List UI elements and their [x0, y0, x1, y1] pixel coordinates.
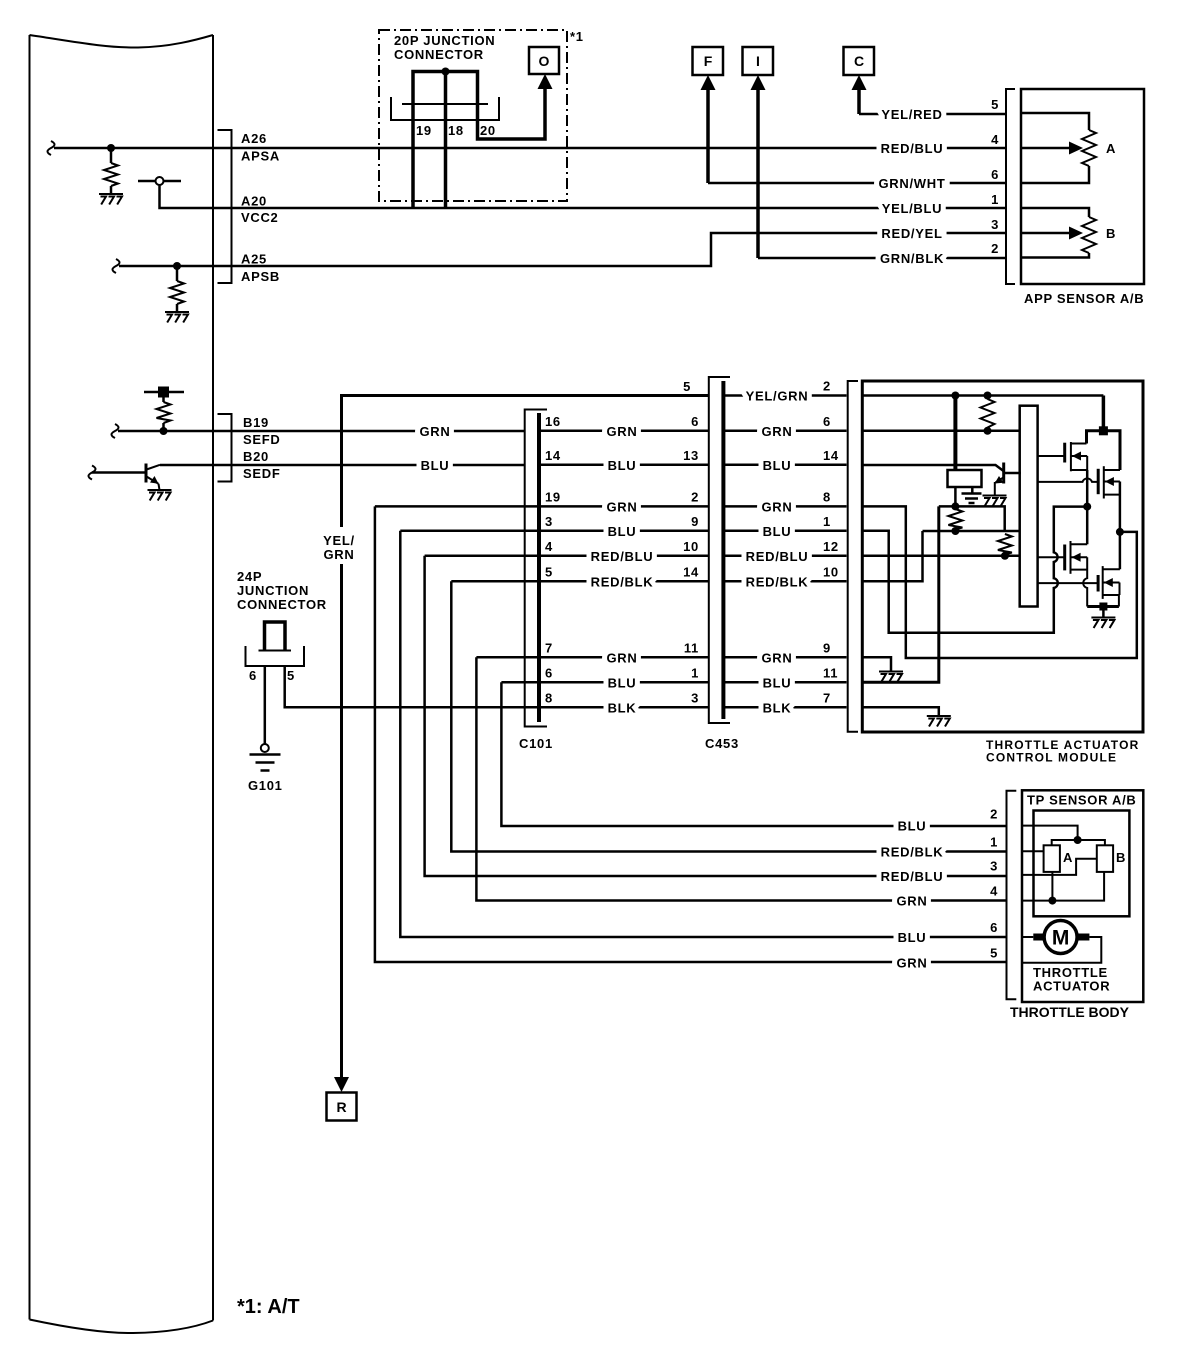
- internal node with circle (VCC2): [138, 180, 181, 183]
- svg-text:YEL/RED: YEL/RED: [881, 107, 942, 122]
- svg-text:5: 5: [991, 97, 999, 112]
- svg-text:C453: C453: [705, 736, 739, 751]
- svg-text:GRN: GRN: [897, 956, 928, 971]
- row BLU pin11: [723, 681, 846, 684]
- resistor p2-p6: [981, 399, 995, 428]
- svg-text:8: 8: [823, 490, 831, 505]
- junction dot pin2/coil: [951, 392, 959, 400]
- svg-text:7: 7: [823, 691, 831, 706]
- APP sensor connector bracket: [1006, 89, 1015, 284]
- H-bridge top rail: [1087, 431, 1121, 470]
- svg-text:GRN: GRN: [897, 894, 928, 909]
- svg-text:RED/BLK: RED/BLK: [746, 574, 809, 589]
- svg-text:G101: G101: [248, 778, 283, 793]
- node junction on APSA: [107, 144, 115, 152]
- svg-text:BLU: BLU: [608, 524, 637, 539]
- connector box F: [693, 47, 724, 75]
- cascade wire GRN to pin7: [476, 657, 1006, 900]
- svg-text:19: 19: [545, 490, 561, 505]
- svg-text:12: 12: [823, 539, 839, 554]
- junction dot R1/link row: [951, 527, 959, 535]
- svg-text:6: 6: [991, 167, 999, 182]
- TP pot A body: [1044, 845, 1060, 872]
- ground (APSB resistor): [165, 312, 189, 323]
- wire YEL/RED: [859, 113, 1006, 116]
- svg-text:GRN/WHT: GRN/WHT: [879, 176, 946, 191]
- svg-text:3: 3: [991, 217, 999, 232]
- svg-text:RED/BLU: RED/BLU: [881, 141, 944, 156]
- svg-text:4: 4: [991, 132, 999, 147]
- throttle body box: [1022, 790, 1143, 1002]
- arrow to O: [538, 74, 553, 89]
- svg-text:YEL/BLU: YEL/BLU: [882, 201, 943, 216]
- row RED/BLU pin12: [723, 555, 846, 558]
- break squiggle on B19: [112, 424, 119, 438]
- svg-text:14: 14: [683, 565, 699, 580]
- svg-text:1: 1: [823, 514, 831, 529]
- 24P connector bus bar: [265, 622, 286, 650]
- junction dot resistor/pin6 wire: [984, 427, 992, 435]
- wire APSA (A26): [54, 147, 1006, 150]
- svg-text:GRN: GRN: [607, 424, 638, 439]
- row BLU C101 6 / C453 1: [501, 681, 708, 684]
- p14 wire inside: [862, 465, 1003, 471]
- row GRN pin6: [723, 430, 846, 433]
- svg-text:SEFD: SEFD: [243, 432, 280, 447]
- svg-text:BLU: BLU: [608, 675, 637, 690]
- mosfet Q4 gate wire: [1038, 582, 1099, 584]
- svg-text:GRN: GRN: [607, 499, 638, 514]
- svg-text:APP SENSOR A/B: APP SENSOR A/B: [1024, 291, 1144, 306]
- APP sensor box: [1021, 89, 1144, 284]
- wire APSB (A25): [119, 233, 1006, 266]
- SECTION: left ECM box: [30, 35, 1007, 1333]
- svg-text:CONTROL MODULE: CONTROL MODULE: [986, 751, 1117, 765]
- SECTION: middle area: [237, 377, 1007, 1121]
- row BLU pin1: [723, 530, 846, 533]
- potentiometer A bottom lead: [1021, 166, 1089, 183]
- wire to I (GRN/BLK riser): [756, 87, 760, 258]
- svg-text:RED/BLK: RED/BLK: [881, 844, 944, 859]
- svg-text:6: 6: [823, 414, 831, 429]
- svg-text:APSB: APSB: [241, 269, 280, 284]
- potentiometer B top lead: [1021, 208, 1089, 217]
- break squiggle on APSA: [48, 141, 55, 155]
- svg-text:BLU: BLU: [898, 819, 927, 834]
- svg-text:BLU: BLU: [898, 930, 927, 945]
- driver bus bar: [1020, 406, 1038, 607]
- potentiometer A top lead: [1021, 113, 1089, 130]
- svg-text:A20: A20: [241, 194, 267, 209]
- Q3 source drop to rail: [1083, 557, 1087, 606]
- svg-text:BLK: BLK: [763, 700, 792, 715]
- svg-text:YEL/: YEL/: [323, 533, 355, 548]
- row RED/BLK C101 5 / C453 14: [451, 580, 709, 583]
- svg-text:18: 18: [448, 123, 464, 138]
- resistor R1: [948, 509, 962, 530]
- svg-text:13: 13: [683, 448, 699, 463]
- svg-text:5: 5: [287, 668, 295, 683]
- wire GRN/BLK: [758, 257, 1006, 260]
- connector C453: [709, 377, 730, 723]
- cascade wire RED/BLK to pin5: [451, 581, 1006, 851]
- svg-text:*1: *1: [570, 29, 584, 44]
- svg-text:YEL/GRN: YEL/GRN: [746, 389, 809, 404]
- module connector bracket: [848, 381, 858, 732]
- pin1 wire inside: [1022, 850, 1044, 852]
- row BLU C101 3 / C453 9: [400, 530, 709, 533]
- svg-text:24P: 24P: [237, 569, 262, 584]
- svg-text:3: 3: [990, 859, 998, 874]
- svg-text:2: 2: [691, 490, 699, 505]
- p8 wire to phase-B: [862, 506, 1137, 658]
- relay coil feed: [953, 396, 957, 471]
- wire pin2 riser to H-bridge rail: [1102, 396, 1106, 429]
- TP top tie wire: [1052, 840, 1105, 845]
- connector box I: [743, 47, 774, 75]
- connector bracket B (B19/B20): [218, 414, 232, 482]
- mosfet Q1: [1063, 443, 1066, 463]
- potentiometer A element: [1082, 130, 1096, 166]
- svg-text:TP SENSOR A/B: TP SENSOR A/B: [1027, 793, 1137, 808]
- svg-text:APSA: APSA: [241, 149, 280, 164]
- SECTION: control module: [848, 381, 1143, 765]
- svg-text:10: 10: [823, 565, 839, 580]
- junction dot phase-B node: [1116, 528, 1124, 536]
- pin 19 wire: [411, 104, 415, 208]
- p1 wire to phase-A: [862, 507, 1087, 633]
- mosfet Q2 gate wire: [1038, 478, 1099, 481]
- svg-text:14: 14: [823, 448, 839, 463]
- svg-text:BLK: BLK: [608, 700, 637, 715]
- svg-text:2: 2: [990, 807, 998, 822]
- 24P connector socket: [259, 650, 292, 652]
- svg-text:6: 6: [691, 414, 699, 429]
- svg-text:10: 10: [683, 539, 699, 554]
- svg-text:RED/BLU: RED/BLU: [591, 549, 654, 564]
- resistor to ground (APSA): [110, 148, 113, 163]
- svg-text:I: I: [756, 53, 760, 69]
- phase-B vertical: [1119, 482, 1122, 570]
- SECTION: throttle body: [881, 790, 1144, 1020]
- svg-text:GRN: GRN: [762, 499, 793, 514]
- row GRN C101 16 / C453 6: [539, 430, 709, 433]
- coil stub to pin8 node: [954, 487, 957, 506]
- svg-text:BLU: BLU: [763, 524, 792, 539]
- svg-text:14: 14: [545, 448, 561, 463]
- link to bus (p1 row segment): [923, 530, 1020, 533]
- pin 6 wire to ground: [264, 666, 267, 744]
- svg-text:6: 6: [990, 920, 998, 935]
- wire SEDF (B20): [160, 464, 525, 467]
- mosfet Q1 gate wire: [1038, 455, 1065, 457]
- transistor (relay driver): [1002, 463, 1005, 484]
- connector box R: [327, 1093, 357, 1121]
- cascade wire GRN to pin19: [375, 506, 1007, 962]
- potentiometer B element: [1082, 217, 1096, 253]
- junction dot pin2/resistor: [984, 392, 992, 400]
- svg-text:6: 6: [545, 666, 553, 681]
- arrow to R: [334, 1077, 349, 1092]
- ground G101: [250, 755, 281, 771]
- svg-text:F: F: [704, 53, 713, 69]
- p12 wire inside: [862, 555, 1019, 558]
- row GRN C101 7 / C453 11: [476, 656, 708, 659]
- p6 wire inside: [862, 430, 1019, 433]
- svg-text:2: 2: [823, 379, 831, 394]
- row BLU pin14: [723, 464, 846, 467]
- svg-text:B20: B20: [243, 449, 269, 464]
- svg-text:O: O: [539, 53, 550, 69]
- svg-text:BLU: BLU: [763, 675, 792, 690]
- svg-text:20: 20: [480, 123, 496, 138]
- svg-text:BLU: BLU: [763, 458, 792, 473]
- pin4 wire inside: [1022, 872, 1104, 901]
- svg-text:A26: A26: [241, 131, 267, 146]
- junction dot TP bottom tie: [1048, 897, 1056, 905]
- throttle actuator control module box: [862, 381, 1143, 732]
- mosfet Q3 gate wire: [1038, 556, 1065, 558]
- svg-text:A: A: [1063, 850, 1073, 865]
- row GRN C101 19 / C453 2: [375, 505, 709, 508]
- potentiometer B wiper: [1021, 232, 1073, 235]
- phase-A link top segment: [939, 506, 1005, 531]
- svg-text:11: 11: [684, 641, 699, 656]
- junction dot coil stub/link: [951, 502, 959, 510]
- relay coil box: [948, 470, 982, 487]
- svg-text:5: 5: [545, 565, 553, 580]
- p10 wire inside: [862, 531, 922, 581]
- svg-text:GRN: GRN: [324, 547, 355, 562]
- svg-text:ACTUATOR: ACTUATOR: [1033, 978, 1110, 993]
- cascade wire BLU to pin3: [400, 531, 1006, 937]
- pin5 wire inside: [1022, 937, 1101, 963]
- svg-text:THROTTLE BODY: THROTTLE BODY: [1010, 1004, 1130, 1020]
- row RED/BLU C101 4 / C453 10: [425, 555, 709, 558]
- mosfet Q4: [1097, 575, 1100, 592]
- svg-text:4: 4: [990, 884, 998, 899]
- transistor Q (SEDF driver): [92, 471, 148, 474]
- wire GRN/WHT: [708, 182, 1006, 185]
- connector box C: [844, 47, 875, 75]
- cascade wire BLU to pin6: [501, 682, 1006, 826]
- mosfet Q2: [1097, 469, 1100, 494]
- p2 wire inside: [862, 394, 1103, 397]
- ground (H-bridge): [1091, 618, 1115, 629]
- junction dot TP top tie: [1074, 836, 1082, 844]
- pin 5 wire (BLK row): [285, 666, 709, 707]
- svg-text:20P JUNCTION: 20P JUNCTION: [394, 33, 495, 48]
- svg-text:1: 1: [691, 666, 699, 681]
- connector box O: [529, 47, 559, 74]
- svg-text:1: 1: [990, 834, 998, 849]
- svg-text:1: 1: [991, 192, 999, 207]
- svg-text:4: 4: [545, 539, 553, 554]
- junction dot R2/pin12 wire: [1001, 552, 1009, 560]
- svg-text:B: B: [1106, 226, 1116, 241]
- wire YEL/GRN vertical: [342, 396, 709, 528]
- svg-text:6: 6: [249, 668, 257, 683]
- svg-text:A: A: [1106, 141, 1116, 156]
- pin 18 wire: [444, 72, 448, 209]
- row BLU C101 14 / C453 13: [539, 464, 709, 467]
- svg-text:RED/YEL: RED/YEL: [881, 226, 942, 241]
- svg-text:JUNCTION: JUNCTION: [237, 583, 309, 598]
- TP sensor box: [1034, 811, 1130, 917]
- break squiggle on APSB: [113, 259, 120, 273]
- svg-text:CONNECTOR: CONNECTOR: [394, 47, 484, 62]
- junction dot on B19: [160, 427, 168, 435]
- svg-text:RED/BLU: RED/BLU: [881, 869, 944, 884]
- svg-text:16: 16: [545, 414, 561, 429]
- svg-text:M: M: [1052, 927, 1070, 950]
- svg-text:5: 5: [683, 379, 691, 394]
- coil stub to ground: [971, 487, 974, 493]
- 20P junction connector dashed box: [379, 30, 567, 201]
- connector bracket A (A26/A20/A25): [218, 130, 232, 283]
- ground (transistor emitter): [983, 496, 1007, 507]
- wire SEFD (B19): [118, 430, 525, 433]
- pin 20 wire: [478, 86, 546, 139]
- ECM/PCM unit box (torn edges): [29, 35, 31, 1320]
- mosfet Q3: [1063, 545, 1066, 571]
- SECTION: top area: [379, 29, 1144, 306]
- 20P connector socket: [402, 103, 488, 105]
- svg-text:SEDF: SEDF: [243, 466, 280, 481]
- svg-text:C101: C101: [519, 736, 553, 751]
- svg-text:C: C: [854, 53, 864, 69]
- H-bridge bottom rail: [1087, 605, 1119, 608]
- wire to F (GRN/WHT riser): [706, 87, 710, 183]
- potentiometer A wiper: [1021, 147, 1073, 150]
- svg-text:B: B: [1116, 850, 1126, 865]
- throttle actuator motor: [1044, 921, 1077, 954]
- svg-text:CONNECTOR: CONNECTOR: [237, 597, 327, 612]
- pin3 wire inside: [1022, 859, 1097, 875]
- svg-text:GRN: GRN: [607, 650, 638, 665]
- p11 wire to phase link: [862, 506, 939, 682]
- svg-text:GRN/BLK: GRN/BLK: [880, 251, 944, 266]
- TB connector bracket: [1007, 791, 1017, 999]
- row GRN pin9: [723, 656, 846, 659]
- pin6 wire inside: [1022, 936, 1033, 938]
- svg-text:R: R: [336, 1099, 346, 1115]
- cascade wire RED/BLU to pin4: [425, 556, 1007, 876]
- svg-text:GRN: GRN: [762, 650, 793, 665]
- pin2 wire inside: [1022, 826, 1078, 840]
- resistor (B19 pull): [162, 392, 165, 402]
- 20P connector bus bar: [413, 72, 478, 105]
- svg-text:9: 9: [823, 641, 831, 656]
- svg-text:*1: A/T: *1: A/T: [237, 1296, 300, 1318]
- p7 wire to ground: [862, 707, 939, 716]
- rows C453 to module: YEL/GRN pin2: [723, 394, 846, 397]
- potentiometer B bottom lead: [1021, 253, 1089, 258]
- node junction on APSB: [173, 262, 181, 270]
- svg-text:3: 3: [691, 691, 699, 706]
- ground (APSA resistor): [99, 194, 123, 205]
- svg-text:A25: A25: [241, 252, 267, 267]
- row BLK pin7: [723, 706, 846, 709]
- svg-text:8: 8: [545, 691, 553, 706]
- svg-text:11: 11: [823, 666, 838, 681]
- svg-text:BLU: BLU: [608, 458, 637, 473]
- junction dot phase-A node: [1083, 503, 1091, 511]
- svg-text:2: 2: [991, 241, 999, 256]
- phase-A vertical: [1086, 470, 1089, 544]
- svg-text:RED/BLK: RED/BLK: [591, 574, 654, 589]
- svg-text:RED/BLU: RED/BLU: [746, 549, 809, 564]
- resistor to ground (APSB): [176, 266, 179, 281]
- svg-text:VCC2: VCC2: [241, 210, 278, 225]
- svg-text:BLU: BLU: [421, 458, 450, 473]
- earth ground (coil): [962, 494, 982, 504]
- connector C101: [525, 410, 547, 727]
- resistor R2: [998, 534, 1012, 555]
- svg-text:B19: B19: [243, 415, 269, 430]
- p9 wire to ground: [862, 657, 891, 671]
- svg-text:5: 5: [990, 946, 998, 961]
- wire VCC2 (A20): [160, 185, 1007, 208]
- svg-text:9: 9: [691, 514, 699, 529]
- junction square rail node: [1099, 426, 1108, 435]
- svg-text:7: 7: [545, 641, 553, 656]
- ground (transistor emitter): [148, 490, 172, 501]
- svg-text:GRN: GRN: [420, 424, 451, 439]
- TP pot B body: [1097, 845, 1113, 872]
- svg-text:19: 19: [416, 123, 432, 138]
- row RED/BLK pin10: [723, 580, 846, 583]
- row GRN pin8: [723, 505, 846, 508]
- wire to C (YEL/RED riser): [857, 87, 861, 114]
- power symbol above B19 resistor: [144, 391, 184, 394]
- svg-text:3: 3: [545, 514, 553, 529]
- svg-text:GRN: GRN: [762, 424, 793, 439]
